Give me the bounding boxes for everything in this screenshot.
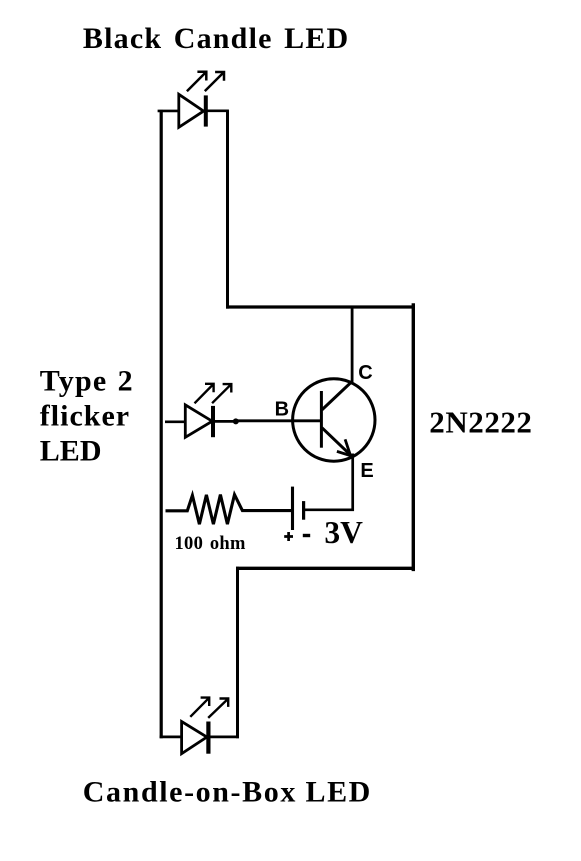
wire battery to emitter [304,454,353,512]
LED D2 light arrow 2 [212,384,231,403]
junction dot base node [233,418,239,424]
wire right vertical to bottom net [412,303,415,571]
svg-text:LED: LED [40,434,102,467]
wire top LED left lead [158,110,180,113]
wire bottom step vertical [236,567,239,739]
svg-text:C: C [358,362,372,384]
transistor Q1 base bar [320,391,323,448]
svg-text:3V: 3V [324,515,363,550]
LED D1 cathode bar [204,95,208,126]
LED D3 cathode bar [206,722,210,754]
LED D2 light arrow 1 [195,384,214,404]
svg-text:B: B [275,398,289,420]
wire bottom LED left lead [160,736,183,739]
svg-text:Type 2: Type 2 [40,364,134,397]
svg-text:100 ohm: 100 ohm [175,534,247,554]
transistor Q1 emitter arrowhead [337,439,351,455]
LED D1 light arrow 1 [187,72,206,91]
LED D3 light arrow 2 [208,699,228,718]
LED D2 cathode bar [211,406,215,437]
battery B1 negative short plate [302,501,305,520]
LED D3 candle-on-box LED triangle [182,722,207,754]
svg-text:flicker: flicker [40,399,130,432]
wire base wire to transistor [236,419,322,422]
LED D1 black candle LED triangle [179,94,204,127]
polarity label + [284,532,293,541]
wire top horizontal collector net [226,305,415,308]
wire bottom step horizontal [236,567,415,570]
transistor Q1 collector diagonal [322,381,353,410]
resistor R1 zigzag [166,495,292,525]
wire left vertical bus [160,110,163,738]
svg-text:Black Candle LED: Black Candle LED [83,22,350,55]
svg-text:2N2222: 2N2222 [429,404,532,439]
wire bottom LED right lead [208,736,239,739]
LED D2 flicker LED triangle [185,405,212,437]
battery B1 positive long plate [291,487,294,530]
wire from top LED down to collector net [226,110,229,308]
wire collector stub [351,307,354,382]
svg-text:E: E [360,460,373,482]
wire flicker LED to junction [213,420,236,423]
transistor Q1 emitter diagonal [322,428,352,456]
polarity label - [303,534,310,537]
transistor Q1 circle [293,379,375,461]
wire flicker LED left lead [165,420,186,423]
svg-text:Candle-on-Box LED: Candle-on-Box LED [83,776,372,809]
LED D1 light arrow 2 [205,72,224,91]
wire top LED right lead [206,110,229,113]
LED D3 light arrow 1 [190,698,209,717]
